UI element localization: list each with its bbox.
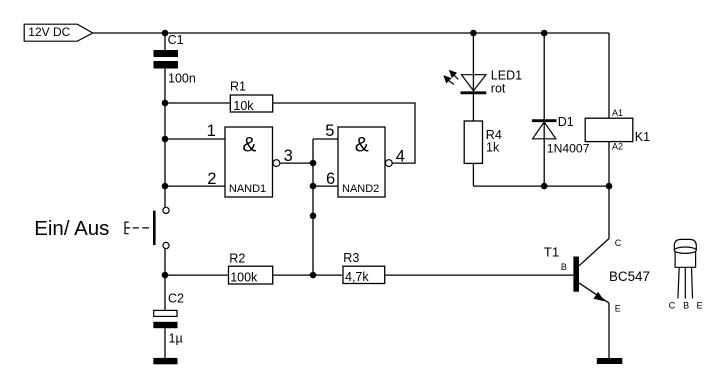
svg-text:D1: D1 [558,115,574,129]
svg-text:K1: K1 [635,130,650,144]
svg-text:6: 6 [326,170,335,188]
svg-text:12V DC: 12V DC [28,25,70,39]
svg-text:&: & [355,133,369,156]
svg-text:rot: rot [491,81,506,95]
svg-text:C2: C2 [168,291,184,305]
svg-text:BC547: BC547 [609,269,650,284]
svg-text:NAND1: NAND1 [229,183,266,195]
svg-text:4: 4 [396,147,405,165]
svg-text:R1: R1 [230,80,246,94]
svg-text:NAND2: NAND2 [342,183,379,195]
svg-text:4,7k: 4,7k [345,270,369,284]
svg-text:&: & [242,133,256,156]
svg-text:C: C [615,238,622,248]
svg-text:C1: C1 [168,33,184,47]
svg-text:1k: 1k [486,140,500,154]
svg-text:T1: T1 [544,244,559,259]
svg-text:10k: 10k [233,99,254,113]
svg-text:2: 2 [207,170,216,188]
svg-text:100n: 100n [168,71,196,85]
svg-text:1N4007: 1N4007 [547,142,590,156]
svg-text:LED1: LED1 [491,68,522,82]
svg-text:E: E [615,304,621,314]
svg-text:100k: 100k [230,270,258,284]
svg-text:A2: A2 [612,142,623,152]
svg-text:Ein/ Aus: Ein/ Aus [34,217,109,240]
svg-text:1µ: 1µ [169,332,183,346]
svg-text:C: C [669,300,676,310]
svg-text:R3: R3 [343,251,359,265]
svg-text:A1: A1 [612,108,623,118]
svg-text:B: B [683,300,689,310]
svg-text:5: 5 [325,122,334,140]
svg-text:1: 1 [207,122,216,140]
svg-text:3: 3 [284,147,293,165]
svg-text:B: B [561,262,567,272]
svg-text:E: E [696,300,702,310]
svg-text:R2: R2 [229,252,245,266]
